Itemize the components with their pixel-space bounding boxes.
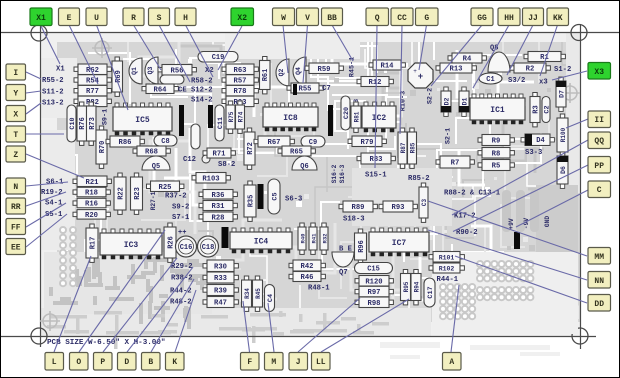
svg-text:R22: R22 [118,187,126,200]
light zone bottom-right [432,252,578,334]
capacitor C11 [215,105,225,141]
svg-text:Q1: Q1 [131,67,138,75]
wire from EE [26,214,67,247]
board outline bottom edge [0,336,596,338]
callout DD [588,295,611,312]
wire from H [186,25,214,77]
resistor R28 [199,212,237,222]
callout BB [322,8,343,26]
svg-text:R20: R20 [85,212,98,220]
callout MM [588,248,611,265]
diode D2 [441,87,451,116]
svg-text:C15: C15 [367,266,380,274]
resistor R77 [74,85,111,96]
electrolytic marker bar small [293,84,297,95]
svg-text:R94: R94 [414,281,421,292]
resistor R22 [114,173,126,214]
svg-text:R30: R30 [214,263,227,271]
resistor R46 [289,272,325,283]
svg-text:R81: R81 [354,111,361,122]
svg-text:R58-2: R58-2 [191,78,213,86]
wire from N [26,182,68,186]
resistor R86 [106,136,144,147]
svg-text:J: J [296,358,301,367]
svg-text:R29-2: R29-2 [171,263,193,271]
transistor Q7 [332,252,354,267]
svg-text:C1: C1 [486,76,494,84]
svg-text:D1: D1 [461,98,468,106]
svg-text:P: P [100,358,105,367]
svg-text:R32: R32 [322,233,329,244]
svg-text:X1: X1 [56,66,65,74]
svg-text:R74: R74 [238,111,245,122]
svg-text:R36: R36 [212,192,225,200]
callout NN [588,272,611,289]
svg-text:S18-3: S18-3 [343,216,365,224]
svg-text:R3: R3 [533,105,541,113]
svg-text:Y: Y [13,90,18,99]
via grid bottom-right B [477,287,533,300]
resistor R96 [355,229,367,264]
svg-text:Q6: Q6 [300,163,308,171]
svg-text:R17: R17 [90,237,98,250]
svg-text:R120: R120 [365,278,382,286]
resistor R26 [164,223,176,262]
wire from D [127,267,193,352]
capacitor C6 [191,124,200,149]
board outline left edge [40,26,42,347]
wire from MM [428,201,587,256]
resistor R59 [305,63,343,74]
wire from KK [540,25,558,76]
resistor R64 [142,84,178,94]
board outline right edge [580,24,582,349]
resistor R72 [244,128,255,169]
svg-text:S16-2: S16-2 [331,164,338,183]
resistor R35 [244,181,256,221]
resistor R89 [339,201,377,212]
svg-text:R46: R46 [301,274,314,282]
svg-text:R41: R41 [311,233,318,244]
trace comb block bottom-left [44,252,217,329]
electrolytic capacitor C18 [198,236,219,257]
svg-text:X2: X2 [237,14,247,23]
svg-text:R103: R103 [202,175,219,183]
wire from Q [375,25,377,168]
svg-text:T: T [13,131,18,140]
callout V [297,8,319,26]
resistor R55 [287,83,323,94]
resistor R62 [74,64,111,75]
callout Y [6,85,26,101]
svg-text:NN: NN [594,277,604,286]
svg-text:R78: R78 [234,88,247,96]
callout X1 [30,8,52,26]
svg-text:RR: RR [11,203,21,212]
svg-text:R83: R83 [370,156,383,164]
svg-text:R79: R79 [361,139,374,147]
svg-text:R57: R57 [234,78,247,86]
svg-text:D2: D2 [443,98,450,106]
resistor R79 [348,136,386,147]
wire from T [26,133,64,135]
svg-text:C20: C20 [343,107,351,119]
fiducial bottom-left [40,311,60,331]
svg-text:R64: R64 [154,86,168,94]
svg-text:IC3: IC3 [124,241,139,250]
svg-text:HH: HH [504,14,514,23]
svg-text:R98: R98 [368,300,381,308]
svg-text:K: K [172,358,177,367]
resistor R13 [436,63,476,74]
svg-text:R25: R25 [159,184,172,192]
svg-text:R95: R95 [403,281,410,292]
resistor R39 [203,285,238,296]
svg-text:R97: R97 [368,289,381,297]
svg-text:C4: C4 [267,294,275,302]
callout W [273,8,295,26]
svg-text:PCB SIZE W-6.50" X H-3.00": PCB SIZE W-6.50" X H-3.00" [47,339,165,347]
resistor R54 [74,75,111,86]
svg-text:DD: DD [594,300,604,309]
svg-text:C11: C11 [217,117,225,129]
transistor Q5 [142,156,170,171]
resistor R73 [87,102,97,145]
wire from Y [26,91,41,93]
via grid bottom-right C [440,284,475,319]
svg-text:EE: EE [11,244,21,253]
electrolytic marker bar 4 [258,184,264,209]
wire from Z [26,154,84,178]
svg-text:R39: R39 [214,288,227,296]
trimmer potentiometer [408,63,433,88]
wire from W [283,25,288,73]
resistor R100 [557,114,568,156]
callout LL [312,353,331,371]
light margin top strip [41,33,580,42]
callout F [241,353,260,371]
svg-text:S15-1: S15-1 [365,172,387,180]
wire from FF [26,203,66,227]
transistor Q6 [292,156,317,171]
svg-text:II: II [594,116,604,125]
op-amp IC5 [113,103,172,135]
svg-text:+9V: +9V [508,218,515,229]
svg-text:BB: BB [327,14,337,23]
svg-text:R75: R75 [228,111,235,122]
resistor R1 [524,52,565,63]
wire from P [103,258,177,352]
resistor R61 [260,57,271,94]
svg-text:R33: R33 [214,275,227,283]
resistor R20 [73,210,110,220]
board outline top edge [0,32,620,34]
svg-text:W: W [281,14,286,23]
callout D [118,353,137,371]
wire from QQ [452,140,588,215]
svg-text:R55-2: R55-2 [42,77,64,85]
svg-text:C8: C8 [161,138,169,146]
svg-text:GND: GND [544,216,551,227]
wire from K [175,290,196,352]
resistor R81 [351,102,361,132]
svg-text:R85: R85 [410,142,417,153]
callout Q [366,8,389,26]
svg-text:S: S [157,14,162,23]
svg-text:S1-2: S1-2 [554,66,571,74]
wire from DD [455,256,587,303]
svg-text:X3: X3 [594,68,604,77]
wire from C [516,190,588,227]
callout N [6,178,26,194]
svg-text:S3/2: S3/2 [508,77,525,85]
svg-text:B: B [148,358,153,367]
svg-text:L: L [52,358,57,367]
wire from GG [431,25,482,86]
svg-text:R65: R65 [290,149,303,157]
svg-text:R14: R14 [381,63,395,71]
svg-text:R87: R87 [400,142,407,153]
light zone mid right [352,168,452,226]
callout M [265,353,284,371]
svg-text:Q5: Q5 [152,163,160,171]
resistor R57 [222,75,258,86]
electrolytic marker bar 2 [208,105,213,128]
capacitor C17 [424,278,435,307]
light margin right strip [566,33,580,193]
callout P [94,353,113,371]
op-amp IC1 [470,94,525,124]
light left upper zone [41,58,77,118]
svg-text:R85-2: R85-2 [408,175,430,183]
callout KK [547,8,569,26]
callout CC [391,8,413,26]
trace block bottom strip [47,311,389,349]
resistor R98 [355,297,393,308]
callout EE [6,239,26,255]
op-amp IC8 [263,103,318,131]
svg-text:Z: Z [13,151,18,160]
capacitor C20 [341,96,351,130]
resistor R74 [236,101,245,133]
wire from B [151,279,194,352]
svg-text:R96: R96 [358,240,366,253]
capacitor C10 [67,105,77,142]
resistor R32 [320,223,329,254]
fiducial bottom-right [558,312,578,332]
callout PP [588,157,611,174]
svg-text:R45: R45 [255,288,262,299]
callout HH [498,8,520,26]
transistor Q1 [129,58,142,84]
svg-text:IC8: IC8 [283,114,298,123]
wire from E [69,25,98,84]
fiducial top-right [560,83,580,103]
svg-text:Q: Q [375,14,380,23]
svg-text:+: + [418,72,423,82]
svg-text:S9-2: S9-2 [172,204,189,212]
svg-text:C2: C2 [543,105,551,113]
callout X [6,106,26,122]
resistor R65 [278,146,315,157]
wire from I [26,72,41,79]
electrolytic marker bar 6 [514,232,520,249]
svg-text:C5: C5 [271,192,279,200]
svg-text:R90-2: R90-2 [456,229,478,237]
resistor R85 [408,128,417,168]
capacitor C5 [268,179,280,214]
op-amp IC2 [362,102,396,132]
svg-text:+: + [413,68,417,75]
svg-text:R34: R34 [244,288,251,299]
svg-text:C3: C3 [421,199,428,207]
resistor R5 [478,160,514,171]
wire from M [268,303,274,352]
callout X3 [588,63,611,80]
resistor R82 [74,96,111,107]
svg-text:R40: R40 [300,233,307,244]
svg-text:R54: R54 [86,78,100,86]
svg-text:R7: R7 [451,160,460,168]
diode D6 [557,152,568,188]
resistor R14 [369,60,405,71]
wire from G [419,25,427,70]
callout U [86,8,107,26]
svg-text:QQ: QQ [594,137,604,146]
svg-text:E: E [67,14,72,23]
wire from X1 [41,26,60,64]
svg-text:C10: C10 [69,117,77,129]
svg-text:R19-2: R19-2 [41,189,63,197]
callout II [588,111,611,128]
callout I [6,64,26,80]
via grid left column [60,227,76,286]
svg-text:R68: R68 [145,149,158,157]
svg-text:M: M [271,358,276,367]
svg-text:X: X [13,111,18,120]
callout J [289,353,308,371]
wire from RR [26,192,66,206]
capacitor C3 [419,183,428,222]
svg-text:S7-1: S7-1 [172,214,190,222]
callout T [6,126,26,142]
svg-text:R67: R67 [268,139,281,147]
wire from II [566,119,588,128]
wire from S [159,25,190,82]
resistor R18 [73,187,110,197]
svg-text:R77: R77 [86,88,99,96]
wire from X2 [218,26,242,70]
resistor R97 [355,286,393,297]
svg-text:D7: D7 [558,90,565,98]
callout S [149,8,170,26]
callout C [588,181,611,198]
svg-text:CE S12-2: CE S12-2 [178,87,213,95]
svg-text:R56: R56 [171,67,184,75]
resistor R93 [222,96,258,107]
resistor R42 [289,260,325,271]
diode D4 [521,134,554,146]
svg-text:R27-1: R27-1 [150,191,157,210]
svg-text:S8-2: S8-2 [218,161,235,169]
resistor R25 [147,181,184,192]
svg-text:LL: LL [316,358,326,367]
svg-text:S16-3: S16-3 [339,164,346,183]
light zone top middle [225,33,360,59]
svg-text:x3: x3 [539,79,548,87]
svg-text:S5-1: S5-1 [45,211,63,219]
wire from BB [332,25,353,61]
resistor R47 [203,297,238,308]
resistor R9 [478,135,514,146]
svg-text:R26: R26 [168,236,176,249]
svg-text:R44-1: R44-1 [437,276,459,284]
svg-text:D: D [124,358,129,367]
svg-text:R23: R23 [134,187,142,200]
svg-text:R86: R86 [119,139,132,147]
callout H [175,8,196,26]
svg-text:S2-1: S2-1 [445,128,453,144]
wire from NN [428,230,587,280]
light margin left strip [41,33,57,333]
resistor R67 [254,136,294,147]
svg-text:I: I [13,69,18,78]
callout L [45,353,64,371]
resistor R103 [192,173,230,184]
resistor R56 [158,65,196,76]
callout JJ [523,8,544,26]
transistor Q2 [276,59,289,86]
resistor R21 [73,176,111,187]
svg-text:C18: C18 [202,244,215,252]
capacitor C2 [542,97,551,123]
svg-text:R93: R93 [392,204,405,212]
svg-text:Q2: Q2 [278,69,285,77]
op-amp IC7 [369,228,429,256]
svg-text:MM: MM [594,253,604,262]
resistor R120 [355,276,393,287]
svg-text:R18: R18 [85,190,98,198]
svg-text:S6-3: S6-3 [285,196,302,204]
capacitor C1 [479,73,502,84]
mounting hole top-left [31,25,47,41]
op-amp IC3 [100,229,162,259]
resistor R4 [448,53,486,64]
svg-text:KK: KK [553,14,563,23]
svg-text:R48-1: R48-1 [308,285,330,293]
svg-text:R21: R21 [86,179,100,187]
svg-text:S2-2: S2-2 [427,88,435,104]
light left mid zone [41,130,75,250]
svg-text:IC5: IC5 [135,116,150,125]
wire from V [303,25,308,83]
wire from HH [473,25,509,88]
svg-text:FF: FF [11,224,21,233]
resistor R16 [73,198,110,208]
svg-text:R61: R61 [262,69,270,82]
callout QQ [588,132,611,149]
svg-text:CC: CC [397,14,407,23]
callout O [70,353,89,371]
capacitor under R56 [160,75,184,84]
resistor R12 [357,77,393,88]
svg-text:R71: R71 [213,151,227,159]
svg-text:Q4: Q4 [295,67,302,75]
callout B [142,353,161,371]
wire from X [26,103,41,114]
svg-text:R5: R5 [492,163,501,171]
resistor R8 [478,148,514,159]
